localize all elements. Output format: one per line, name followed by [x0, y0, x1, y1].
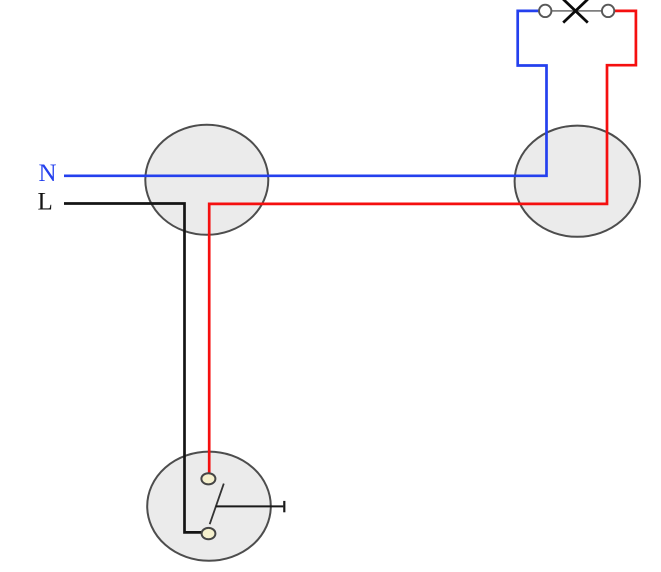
wire switched live (red) [209, 11, 636, 474]
wire N neutral (blue) [64, 11, 547, 176]
lamp E1 cross [563, 0, 588, 23]
lamp internal lead (gray) [551, 10, 602, 12]
switch terminal top [201, 473, 215, 484]
switch lever [210, 484, 224, 525]
lamp terminal left [539, 5, 551, 17]
junction box J1 (left) [145, 125, 268, 235]
lamp terminal right [602, 5, 614, 17]
svg-text:L: L [38, 189, 53, 216]
svg-text:N: N [39, 160, 57, 187]
wire L live (black) [64, 204, 202, 533]
switch actuator end tick [283, 501, 285, 512]
switch terminal bottom [202, 528, 216, 539]
switch box enclosure [147, 452, 271, 561]
junction box J2 (right) [515, 126, 640, 237]
switch actuator rod [216, 505, 284, 507]
